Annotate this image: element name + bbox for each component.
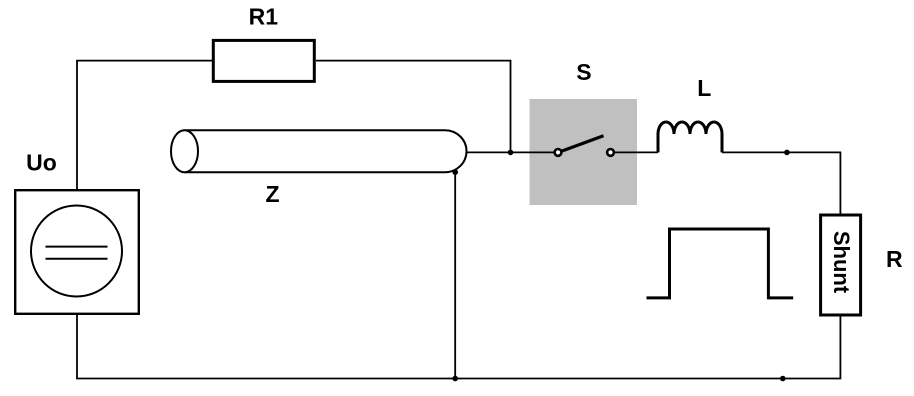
wire from R1 right down to switch node xyxy=(316,61,511,153)
wire from Uo top to R1 left xyxy=(77,61,213,190)
junction dot after inductor xyxy=(784,150,790,156)
junction dot on bottom rail right xyxy=(780,376,786,382)
svg-text:Z: Z xyxy=(265,181,279,207)
svg-text:Uo: Uo xyxy=(26,150,57,176)
switch left terminal xyxy=(555,149,562,156)
switch right terminal xyxy=(607,149,614,156)
transmission line Z body xyxy=(185,130,467,172)
wire cylinder bottom junction down to bottom rail xyxy=(454,172,456,378)
svg-text:L: L xyxy=(697,75,711,101)
wire Uo bottom to bottom rail xyxy=(76,315,78,379)
svg-text:R: R xyxy=(886,246,903,272)
wire inductor to shunt top corner xyxy=(722,152,840,213)
voltage source Uo circle xyxy=(31,206,122,297)
switch lever xyxy=(560,136,604,152)
shunt resistor box xyxy=(821,215,861,315)
switch S gray box xyxy=(530,99,638,205)
pulse waveform symbol xyxy=(647,229,794,298)
wire cylinder to switch xyxy=(467,151,555,153)
resistor R1 xyxy=(213,40,314,81)
svg-text:R1: R1 xyxy=(249,4,279,30)
wire switch to inductor xyxy=(614,151,658,153)
svg-text:S: S xyxy=(576,59,591,85)
svg-text:Shunt: Shunt xyxy=(829,231,854,294)
bottom rail wire xyxy=(76,378,840,380)
inductor L xyxy=(658,122,722,152)
voltage source Uo box xyxy=(15,190,139,314)
voltage source equals lines xyxy=(46,246,108,248)
wire shunt bottom to bottom rail xyxy=(839,315,841,379)
junction dot on bottom rail below cylinder xyxy=(452,376,458,382)
junction dot at switch node xyxy=(508,150,514,156)
junction dot on cylinder bottom xyxy=(452,169,458,175)
transmission line Z left ellipse xyxy=(171,130,198,172)
